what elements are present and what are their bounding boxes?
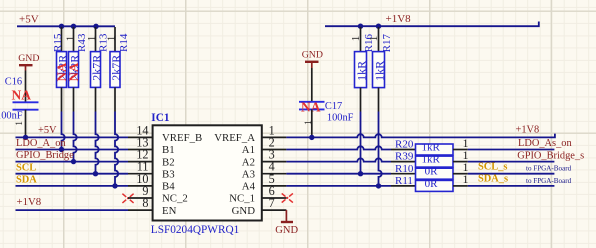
C17 top plate: [299, 101, 325, 103]
resistor R16: [350, 27, 375, 112]
svg-text:GPIO_Bridge: GPIO_Bridge: [16, 150, 74, 161]
R14 pin 1: [114, 27, 116, 52]
svg-text:C17: C17: [325, 101, 342, 112]
resistor R20: [391, 136, 469, 155]
svg-text:0R: 0R: [425, 178, 439, 190]
R39 pin 1: [453, 161, 468, 163]
R15 pin 1: [61, 27, 63, 52]
wire +1V8 rail: [325, 22, 539, 27]
svg-text:1: 1: [350, 36, 362, 42]
R10 body: [416, 168, 454, 179]
svg-text:1: 1: [368, 36, 380, 42]
svg-text:A2: A2: [242, 156, 255, 168]
svg-text:2k7R: 2k7R: [89, 55, 103, 81]
wire A1 row to R20 with hops: [286, 146, 391, 149]
wire pin8 row EN: [16, 209, 129, 211]
pin 7 stub: [262, 209, 287, 211]
junction R16 to SCL_s row: [358, 171, 363, 176]
svg-text:1: 1: [106, 36, 118, 42]
svg-text:GND: GND: [275, 225, 298, 236]
resistor R17: [368, 27, 393, 112]
R43 pin 1: [73, 27, 75, 52]
junction on +5V rail at R15: [59, 24, 64, 29]
R10 pin 2: [391, 173, 416, 175]
svg-text:1: 1: [463, 172, 469, 186]
R20 pin 1: [453, 149, 468, 151]
svg-text:R15: R15: [52, 33, 64, 52]
pin 6 stub: [262, 197, 287, 199]
svg-text:+5V: +5V: [19, 14, 39, 26]
R14 body: [110, 52, 120, 88]
svg-text:R20: R20: [395, 139, 414, 151]
GND lead: [285, 210, 287, 222]
svg-text:SDA_s: SDA_s: [478, 174, 508, 185]
R39 body: [416, 156, 454, 167]
capacitor C16: [0, 71, 39, 138]
resistor R11: [391, 172, 469, 191]
GND lead: [311, 62, 313, 68]
wire A3 row to R10: [286, 173, 391, 175]
pin 1 stub: [262, 136, 287, 138]
junction R13 to SCL: [93, 171, 98, 176]
IC IC1 body (LSF0204QPWRQ1 level shifter): [153, 125, 262, 220]
C17 pin 1: [311, 109, 313, 137]
R17 pin 2: [378, 88, 380, 112]
R11 pin 1: [453, 185, 468, 187]
capacitor C17: [299, 68, 354, 137]
svg-text:NA: NA: [12, 88, 32, 103]
junction +1V8 rail at R16: [358, 24, 363, 29]
pin 3 stub: [262, 161, 287, 163]
svg-text:to FPGA-Board: to FPGA-Board: [526, 165, 572, 173]
svg-text:VREF_B: VREF_B: [162, 132, 202, 144]
wire A4 row to R11: [286, 185, 391, 187]
svg-text:A4: A4: [242, 181, 256, 193]
R20 body: [416, 144, 454, 155]
svg-text:C16: C16: [5, 77, 22, 88]
R43 body: [69, 52, 79, 88]
svg-text:EN: EN: [162, 205, 177, 217]
R13 pin 2: [95, 87, 97, 111]
major gridline horizontal: [0, 11, 596, 12]
junction R14 to SDA: [112, 183, 117, 188]
R15 body: [57, 52, 67, 88]
svg-text:100nF: 100nF: [327, 112, 354, 123]
svg-text:8: 8: [142, 196, 148, 210]
R16 pin 2: [360, 88, 362, 112]
C17 bottom plate: [299, 108, 325, 110]
C16 pin 1: [25, 110, 27, 138]
wire from R15 down to pin13 row with hop over pin14 row: [62, 112, 65, 150]
pin 13 stub: [128, 149, 153, 151]
resistor R10: [391, 160, 469, 179]
svg-text:1: 1: [15, 121, 25, 126]
svg-text:1: 1: [64, 36, 76, 42]
R11 body: [416, 180, 454, 191]
svg-text:GPIO_Bridge_s: GPIO_Bridge_s: [517, 151, 584, 162]
svg-text:2k7R: 2k7R: [109, 55, 123, 81]
svg-text:SCL: SCL: [16, 162, 36, 173]
wire R16 down to pin4 row: [360, 112, 362, 174]
svg-text:R14: R14: [118, 33, 130, 52]
svg-text:SCL_s: SCL_s: [478, 162, 507, 173]
wire R11 to SDA_s: [468, 185, 555, 187]
ground GND for C16: [18, 53, 39, 71]
wire from R13 down to pin11 row with hops: [96, 112, 99, 174]
resistor R15: [52, 27, 69, 112]
pin 2 stub: [262, 149, 287, 151]
svg-text:1kR: 1kR: [422, 142, 441, 154]
pin 12 stub: [128, 161, 153, 163]
svg-text:100nF: 100nF: [0, 110, 23, 121]
wire R10 to SCL_s: [468, 173, 555, 175]
R39 pin 2: [391, 161, 416, 163]
R17 body: [373, 52, 385, 88]
wire R39 to GPIO_Bridge_s: [468, 161, 555, 163]
svg-text:B1: B1: [162, 144, 175, 156]
R13 pin 1: [95, 27, 97, 52]
junction C16 to +5V row: [23, 135, 28, 140]
no-ERC cross on pin 9: [122, 194, 133, 203]
junction R17 to SDA_s row: [376, 183, 381, 188]
wire pin11 row: [16, 173, 129, 175]
svg-text:0R: 0R: [425, 166, 439, 178]
major gridline vertical: [63, 0, 64, 248]
GND lead: [25, 65, 27, 70]
junction +1V8 rail at R17: [376, 24, 381, 29]
svg-text:+1V8: +1V8: [17, 196, 42, 208]
wire pin12 row: [16, 161, 129, 163]
junction on +5V rail at R43: [71, 24, 76, 29]
resistor R14: [106, 27, 131, 112]
svg-text:NC_1: NC_1: [229, 193, 255, 205]
svg-text:1kR: 1kR: [373, 61, 387, 81]
svg-text:VREF_A: VREF_A: [214, 132, 255, 144]
GND bar: [305, 61, 319, 63]
C16 top plate: [13, 101, 39, 103]
wire pin13 row: [16, 149, 129, 151]
svg-text:R11: R11: [395, 175, 413, 187]
wire +5V rail: [17, 25, 115, 27]
junction R15 to LDO_A_on: [59, 147, 64, 152]
svg-text:R10: R10: [395, 163, 414, 175]
svg-text:+1V8: +1V8: [516, 124, 540, 135]
svg-text:GND: GND: [18, 53, 39, 64]
wire from R43 down to pin12 row with hops: [74, 112, 77, 162]
R14 pin 2: [114, 87, 116, 111]
svg-text:1: 1: [304, 120, 314, 125]
pin 5 stub: [262, 185, 287, 187]
svg-text:R39: R39: [395, 151, 414, 163]
R20 pin 2: [391, 149, 416, 151]
svg-text:GND: GND: [302, 50, 323, 61]
svg-text:B3: B3: [162, 168, 175, 180]
R13 body: [91, 52, 101, 88]
junction R43 to GPIO_Bridge: [71, 159, 76, 164]
junction on +5V rail at R13: [93, 24, 98, 29]
svg-text:LDO_A_on: LDO_A_on: [16, 138, 66, 149]
svg-text:1kR: 1kR: [355, 61, 369, 81]
svg-text:to FPGA-Board: to FPGA-Board: [526, 177, 572, 185]
R17 pin 1: [378, 27, 380, 52]
no-ERC cross on pin 6: [282, 193, 293, 202]
wire R17 down to pin5 row with hop over pin4 row: [379, 112, 382, 186]
ground GND for C17: [302, 50, 323, 68]
R16 pin 1: [360, 27, 362, 52]
svg-text:+1V8: +1V8: [386, 13, 412, 25]
ground GND at IC pin 7: [275, 210, 298, 236]
pin 4 stub: [262, 173, 287, 175]
svg-text:NC_2: NC_2: [162, 193, 188, 205]
wire pin14 row: [16, 136, 129, 138]
svg-text:+5V: +5V: [38, 125, 57, 136]
resistor R43: [64, 27, 88, 112]
svg-text:B4: B4: [162, 181, 175, 193]
pin 10 stub: [128, 185, 153, 187]
wire R20 to LDO_As_on: [468, 149, 555, 151]
C16 bottom plate: [13, 109, 39, 111]
svg-text:LSF0204QPWRQ1: LSF0204QPWRQ1: [151, 224, 240, 236]
resistor R13: [86, 27, 110, 112]
svg-text:R17: R17: [381, 33, 393, 52]
svg-text:GND: GND: [232, 205, 256, 217]
svg-text:LDO_As_on: LDO_As_on: [518, 138, 572, 149]
R15 pin 2: [61, 87, 63, 111]
wire A2 row to R39 with hops: [286, 158, 391, 161]
R43 pin 2: [73, 87, 75, 111]
svg-text:B2: B2: [162, 156, 175, 168]
GND bar: [281, 221, 293, 223]
svg-text:A1: A1: [242, 144, 255, 156]
svg-text:IC1: IC1: [151, 112, 170, 124]
svg-text:1kR: 1kR: [422, 154, 441, 166]
pin 9 stub: [128, 197, 153, 199]
R10 pin 1: [453, 173, 468, 175]
pin 11 stub: [128, 173, 153, 175]
C16 pin 2 (to GND): [25, 71, 27, 102]
pin 8 stub: [128, 209, 153, 211]
wire from R14 down to pin10 row with hops: [115, 112, 118, 186]
C17 pin 2 (to GND): [311, 68, 313, 102]
wire pin10 row: [16, 185, 129, 187]
junction C17 to VREF_A row: [309, 135, 314, 140]
R16 body: [355, 52, 367, 88]
resistor R39: [391, 148, 469, 167]
wire VREF_A row to +1V8 with hops: [286, 134, 555, 138]
GND bar: [19, 64, 33, 66]
svg-text:NA: NA: [66, 62, 81, 81]
svg-text:NA: NA: [301, 99, 321, 114]
pin 14 stub: [128, 136, 153, 138]
R11 pin 2: [391, 185, 416, 187]
svg-text:1: 1: [86, 36, 98, 42]
svg-text:SDA: SDA: [16, 175, 37, 186]
svg-text:A3: A3: [242, 168, 255, 180]
